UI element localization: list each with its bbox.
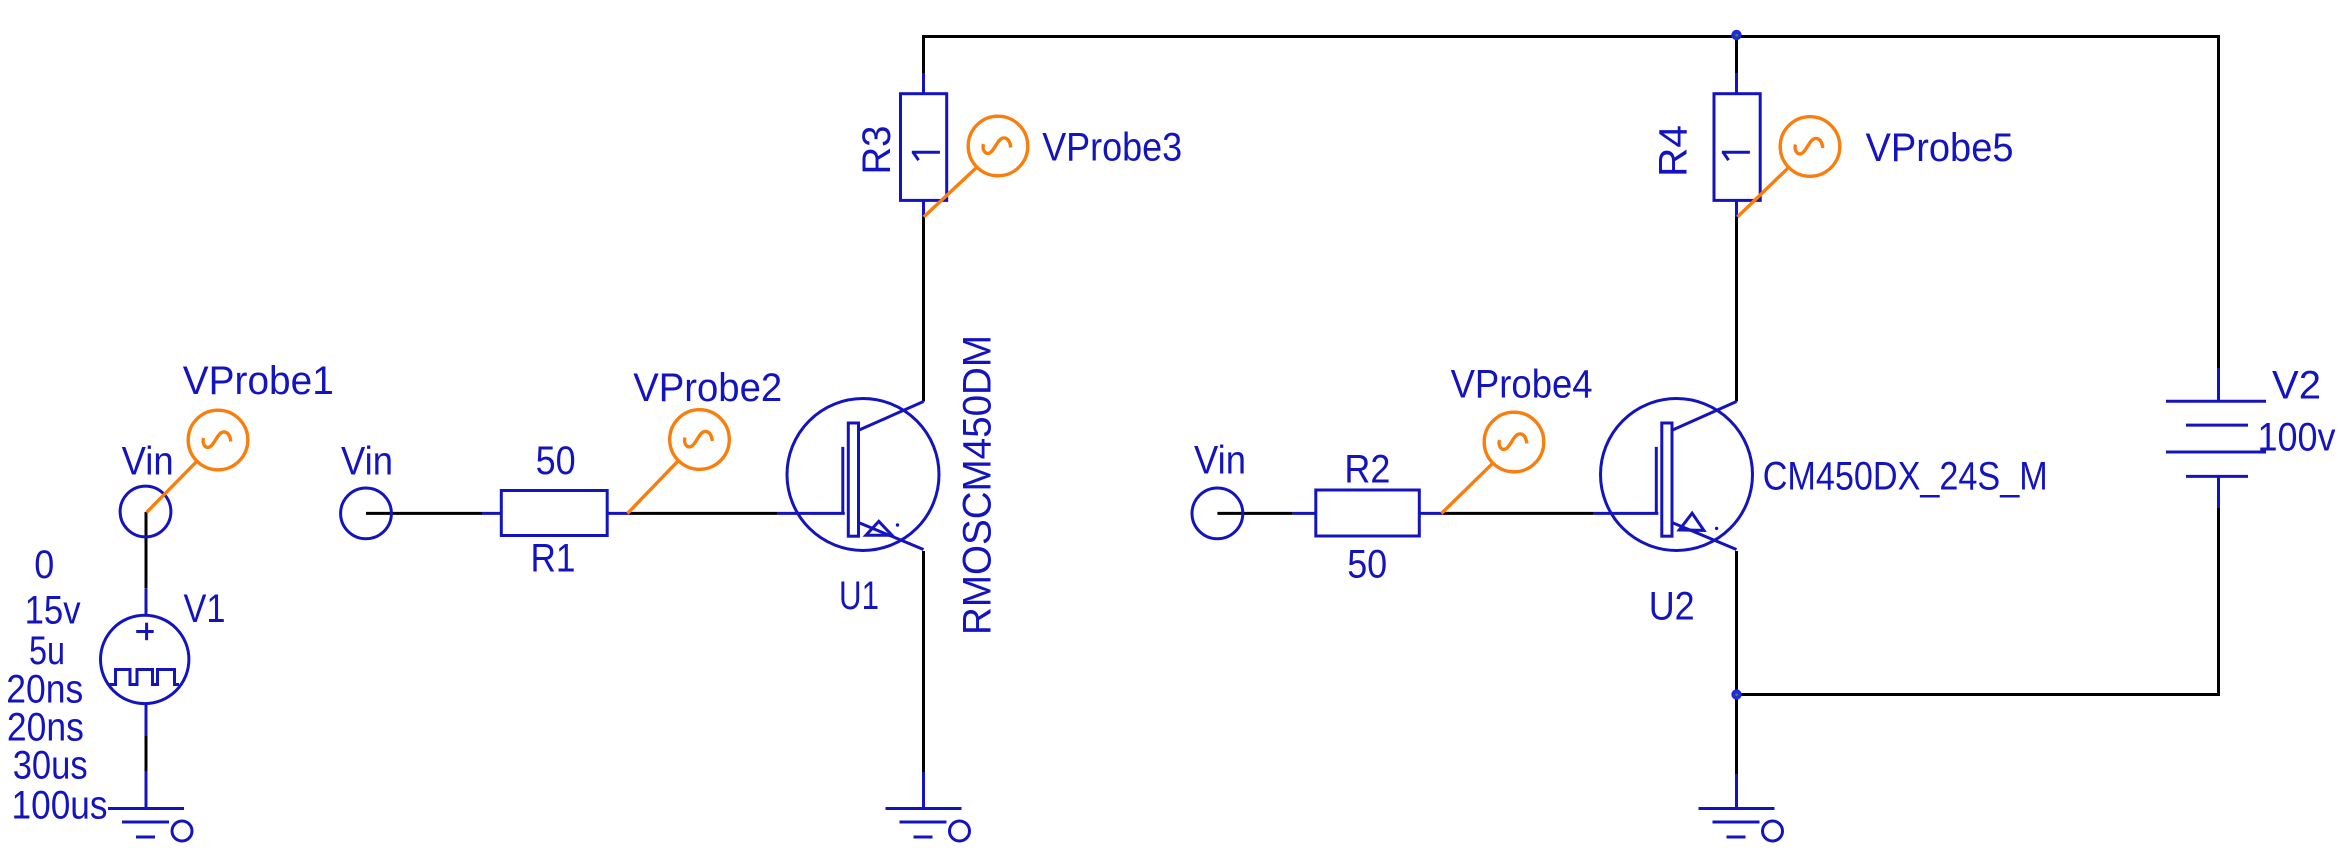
probe VProbe5 xyxy=(1738,167,1789,217)
svg-text:VProbe4: VProbe4 xyxy=(1451,363,1593,407)
resistor R1 xyxy=(482,512,501,515)
node Vin terminal 2 xyxy=(341,488,392,539)
value label 1 of R4 xyxy=(1722,151,1750,154)
svg-text:0: 0 xyxy=(34,543,54,587)
svg-text:CM450DX_24S_M: CM450DX_24S_M xyxy=(1763,455,2048,499)
ground for U2 xyxy=(1735,774,1738,807)
svg-text:U2: U2 xyxy=(1649,585,1695,629)
node Vin terminal 3 xyxy=(1192,488,1243,539)
svg-text:5u: 5u xyxy=(29,629,65,673)
svg-text:V1: V1 xyxy=(184,587,226,631)
wire V1 bottom to ground xyxy=(145,736,148,771)
svg-text:V2: V2 xyxy=(2272,364,2321,408)
node Vin terminal 1 xyxy=(120,486,171,537)
probe VProbe1 xyxy=(147,461,198,512)
resistor R3 xyxy=(922,73,925,94)
wire Vin3 terminal to R2 xyxy=(1217,512,1292,515)
wire R2 to U2 gate xyxy=(1443,512,1594,515)
svg-text:Vin: Vin xyxy=(1194,438,1246,482)
V1 plus polarity mark xyxy=(136,630,154,633)
svg-text:15v: 15v xyxy=(25,589,81,633)
wire R4 bottom to U2 collector xyxy=(1735,217,1738,402)
svg-text:30us: 30us xyxy=(13,744,88,788)
wire top rail from R3 to V2 xyxy=(924,37,2219,369)
svg-text:VProbe5: VProbe5 xyxy=(1866,126,2014,170)
wire R4 top to rail xyxy=(1735,37,1738,74)
svg-text:R1: R1 xyxy=(531,536,576,580)
voltage source V2 battery xyxy=(2217,368,2220,401)
probe VProbe2 xyxy=(628,460,679,513)
resistor R2 xyxy=(1293,512,1316,515)
value label 1 of R3 xyxy=(912,151,940,154)
junction dot at top rail xyxy=(1731,30,1741,40)
svg-text:Vin: Vin xyxy=(122,440,174,484)
ground for U1 xyxy=(922,772,925,807)
wire R3 bottom to U1 collector xyxy=(922,217,925,402)
svg-text:R2: R2 xyxy=(1344,448,1390,492)
transistor U2 IGBT xyxy=(1601,399,1753,551)
resistor R4 xyxy=(1735,73,1738,94)
ground for V1 xyxy=(145,771,148,807)
svg-text:U1: U1 xyxy=(839,574,879,618)
svg-text:50: 50 xyxy=(1347,543,1387,587)
wire U2 emitter to node xyxy=(1735,551,1738,774)
transistor U1 IGBT xyxy=(787,399,939,551)
V1 pulse waveform glyph xyxy=(109,670,179,685)
svg-text:VProbe1: VProbe1 xyxy=(183,359,334,403)
wire Vin2 terminal to R1 xyxy=(366,512,482,515)
svg-text:100us: 100us xyxy=(12,784,108,828)
svg-text:100v: 100v xyxy=(2258,416,2336,460)
junction dot at emitter node xyxy=(1731,689,1741,699)
probe VProbe3 xyxy=(924,167,977,217)
svg-text:VProbe2: VProbe2 xyxy=(633,366,782,410)
svg-text:Vin: Vin xyxy=(341,440,393,484)
svg-text:RMOSCM450DM: RMOSCM450DM xyxy=(956,335,1000,635)
wire R1 to U1 gate xyxy=(629,512,777,515)
wire V2 bottom to U2 emitter node xyxy=(1737,508,2219,695)
wire Vin terminal to V1 xyxy=(145,512,148,588)
svg-text:50: 50 xyxy=(536,439,576,483)
svg-text:R4: R4 xyxy=(1652,125,1696,177)
voltage source V1 xyxy=(101,615,189,703)
probe VProbe4 xyxy=(1442,463,1494,514)
svg-text:VProbe3: VProbe3 xyxy=(1042,125,1182,169)
svg-text:R3: R3 xyxy=(855,126,899,175)
wire U1 emitter to ground xyxy=(922,551,925,772)
